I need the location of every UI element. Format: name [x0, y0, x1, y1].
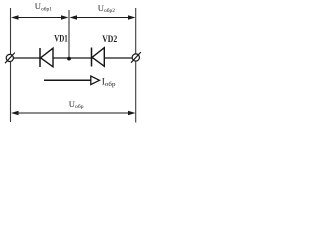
dimension line Uobr2 — [70, 15, 136, 20]
terminal left — [5, 53, 15, 64]
diode VD2 — [92, 48, 105, 67]
svg-text:VD2: VD2 — [102, 34, 117, 45]
wire left extension lower — [10, 62, 12, 123]
junction dot — [67, 57, 71, 61]
dimension line Uobr1 — [11, 15, 69, 20]
svg-text:Iобр: Iобр — [102, 77, 116, 88]
wire right extension lower — [135, 61, 137, 123]
svg-text:VD1: VD1 — [54, 33, 68, 44]
terminal right — [131, 52, 141, 63]
node left extension line — [10, 8, 12, 55]
node center extension line — [68, 10, 70, 59]
diode VD1 — [40, 48, 53, 67]
dimension line Uobr bottom — [11, 111, 136, 116]
svg-text:Uобр1: Uобр1 — [35, 1, 52, 12]
svg-text:Uобр: Uобр — [69, 99, 84, 110]
node right extension line — [135, 8, 137, 54]
svg-text:Uобр2: Uобр2 — [98, 3, 115, 14]
wire main horizontal — [13, 57, 132, 59]
current arrow Iobr — [44, 76, 100, 85]
